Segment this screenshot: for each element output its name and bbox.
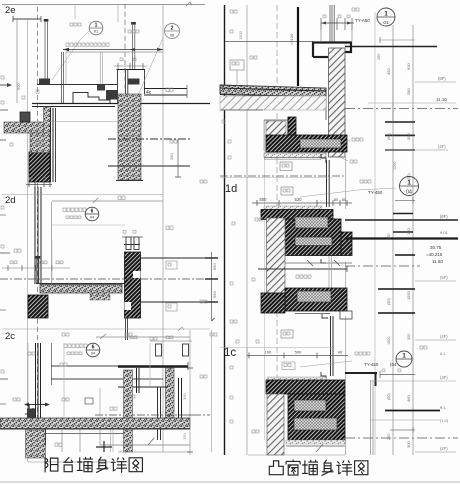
interior line 2c top (52, 198, 163, 203)
anno bubble top-left (52, 21, 103, 80)
stipple strip bottom right (166, 368, 175, 419)
svg-text:(3F): (3F) (440, 375, 448, 380)
door sill blocks 2e (97, 85, 118, 100)
elev dashdot 264 (345, 265, 420, 267)
door leaf verticals 2e (62, 52, 64, 103)
window verticals bottom (158, 387, 161, 440)
window centerline 2c (0, 278, 212, 280)
win1 head inner line (287, 120, 289, 152)
svg-text:(2F): (2F) (440, 446, 448, 451)
win2 head frame (321, 259, 326, 263)
door frame verticals bottom (28, 343, 52, 418)
sp3 corner box (340, 311, 352, 319)
svg-text:2e: 2e (5, 5, 16, 16)
svg-text:350: 350 (407, 334, 411, 340)
interior shelf lines bottom (51, 366, 163, 379)
pipe double lines (330, 5, 334, 42)
svg-text:200: 200 (387, 434, 391, 440)
win1 dark head strip (288, 117, 296, 152)
column top ticks (114, 58, 147, 69)
door verticals continuation (35, 187, 52, 284)
svg-text:40: 40 (338, 351, 342, 355)
elev tick 255 (395, 254, 415, 256)
svg-text:600: 600 (406, 63, 411, 70)
elev tick 122 (385, 103, 415, 122)
right dim vertical b (392, 25, 394, 455)
right roof edge lines (220, 88, 326, 120)
win3 dim line (247, 348, 348, 360)
right label 1c (220, 347, 332, 359)
stipple slab band 2c (40, 285, 122, 294)
svg-text:04: 04 (91, 352, 95, 356)
win3 sill frame (321, 372, 326, 380)
rot dims right bot (387, 393, 411, 448)
caption 阳台墙身详图 (45, 457, 58, 472)
svg-text:>2100: >2100 (289, 33, 294, 45)
stipple slab bottom (0, 418, 190, 429)
window sill line (108, 140, 190, 166)
right small smudges left edge (228, 10, 262, 433)
caption 凸窗墙身详图 (269, 461, 283, 475)
svg-text:500: 500 (260, 197, 268, 202)
elev dark 238 (345, 230, 458, 239)
waterproof smudge (338, 138, 363, 163)
balcony floor line (37, 84, 117, 86)
mullion pair right (179, 378, 182, 420)
win1 frame step (321, 154, 326, 163)
dark beam block 2d (29, 152, 50, 182)
small dark block (20, 112, 30, 122)
roof thick line (345, 46, 437, 48)
svg-text:80: 80 (334, 198, 338, 202)
elev line 340 (415, 334, 456, 340)
stipple under band (30, 133, 50, 153)
sp4 insul strip2 (294, 418, 337, 430)
anno text row (66, 43, 109, 46)
threshold steps (73, 93, 110, 104)
left edge marks (0, 76, 12, 404)
elev dashdot 437 (345, 437, 458, 439)
win3 glazing (331, 316, 334, 376)
elev line 430 (390, 427, 415, 433)
small marks bottom (85, 395, 135, 404)
win1 sill stipple (264, 153, 326, 158)
left label 2d (2, 195, 163, 207)
elev line 280 (415, 275, 456, 281)
sp2 insul strip1 (295, 217, 328, 228)
svg-text:150: 150 (406, 228, 411, 235)
svg-text:1c: 1c (224, 347, 236, 359)
left upper dim boxes (22, 90, 39, 99)
dim ticks row mid (2, 261, 70, 271)
svg-text:4c: 4c (146, 90, 152, 96)
svg-text:TY-A50: TY-A50 (355, 18, 370, 23)
left wall line B (27, 19, 29, 462)
anno bubble 1d right (300, 177, 419, 198)
elev line 82 (415, 76, 456, 82)
left 42 smudge (14, 249, 21, 252)
right interior wall line (224, 5, 226, 455)
svg-text:100: 100 (387, 234, 391, 240)
below slab room line (46, 428, 131, 445)
bottom dim arrow line (13, 398, 69, 407)
svg-text:(50): (50) (387, 393, 391, 400)
svg-text:(50): (50) (387, 133, 391, 140)
double wall lines bottom right (371, 380, 374, 455)
interior ceiling line (66, 51, 163, 53)
elev dark 410 (385, 405, 446, 411)
svg-text:8.1: 8.1 (440, 351, 446, 356)
svg-text:1500: 1500 (238, 30, 243, 40)
svg-text:450: 450 (386, 68, 391, 75)
win3 anno box (281, 330, 293, 338)
svg-text:11.60: 11.60 (432, 259, 443, 264)
elev line 380 (370, 375, 456, 381)
roof interior line (220, 109, 263, 111)
stipple wall strip 2e (44, 107, 51, 160)
4c double lines (144, 85, 187, 98)
railing post 2c (35, 256, 40, 284)
right wall line 2 (246, 5, 248, 455)
sp2 dark mid (285, 219, 341, 256)
elev double ticks upper (385, 40, 415, 136)
svg-text:=40.215: =40.215 (426, 252, 443, 257)
sp4 bottom stipple (286, 440, 345, 444)
railing post right (131, 22, 136, 69)
dim col bottom (182, 330, 212, 455)
right dim vertical a (374, 12, 376, 455)
block bottom ticks (26, 178, 52, 188)
window centerline bottom (95, 414, 210, 416)
stipple column base (116, 180, 143, 182)
elev line 200 (395, 197, 415, 204)
roof line light (225, 41, 313, 43)
sp4 dark block (288, 394, 345, 440)
sp2 dark bump right (341, 232, 352, 256)
sp4 dark top band (266, 380, 345, 394)
svg-text:150: 150 (182, 433, 187, 440)
svg-text:(1.0): (1.0) (440, 418, 449, 423)
window line 2c a (141, 257, 213, 259)
svg-text:(04: (04 (390, 362, 397, 367)
win2 dim line (285, 260, 352, 266)
anno bubble 1c right (300, 351, 412, 367)
sp3 frame (322, 314, 328, 318)
svg-text:250: 250 (377, 54, 381, 60)
main wall hatch roof (329, 48, 346, 157)
elev line 452 (415, 446, 456, 452)
svg-text:350: 350 (406, 133, 411, 140)
svg-text:280: 280 (169, 153, 174, 160)
glazing pair 2e (126, 70, 128, 108)
svg-text:11.10: 11.10 (436, 97, 447, 102)
interior dim box roof (230, 60, 244, 86)
bottom dim posts (130, 336, 192, 356)
hatch column cap 2c (124, 245, 140, 319)
svg-text:60: 60 (342, 198, 346, 202)
left wall line A (16, 19, 18, 103)
rot dims right top (386, 63, 411, 140)
dim col 2c (166, 252, 218, 321)
sp3 bottom line (295, 313, 330, 315)
svg-text:1: 1 (95, 23, 98, 29)
left room boundary line (162, 5, 164, 452)
sill block right (128, 79, 140, 85)
svg-text:1d: 1d (225, 183, 237, 195)
balcony floor line 2c (36, 283, 125, 285)
parapet coping (313, 43, 351, 58)
svg-text:TY-450: TY-450 (368, 190, 383, 195)
svg-text:04: 04 (406, 189, 412, 195)
win1 dim line (252, 197, 352, 206)
below slab lines (28, 429, 190, 462)
stipple hang 2c (90, 293, 110, 300)
left mid extra lines (52, 225, 125, 284)
elev texts top (352, 8, 395, 26)
svg-text:300: 300 (182, 393, 187, 400)
elev tick 288 (378, 288, 415, 290)
win3 460 box (282, 362, 295, 370)
stipple column upper (118, 94, 141, 180)
svg-text:280: 280 (406, 88, 411, 95)
win1 insul strip (300, 139, 341, 148)
dark beam block 2c (28, 295, 48, 318)
right more rot dims (377, 54, 411, 440)
dim smudges 2d-left (10, 141, 43, 146)
interior line bottom top (96, 334, 190, 339)
svg-text:01: 01 (383, 20, 389, 26)
elev smudge 350 (420, 346, 446, 356)
svg-text:300: 300 (406, 441, 411, 448)
svg-text:550: 550 (212, 263, 217, 270)
left mid horizontal y120 (50, 121, 118, 123)
left-of-1d smudges (222, 92, 243, 123)
left grid line top (2, 4, 205, 6)
slab top double line (32, 104, 210, 107)
win1 anno box a (280, 162, 292, 171)
left top tick line (13, 16, 41, 22)
svg-text:1200: 1200 (393, 162, 397, 170)
anno bubble 2c2 (64, 343, 100, 357)
elev thick 373 (345, 373, 377, 386)
svg-text:100: 100 (265, 350, 272, 355)
svg-text:2: 2 (171, 26, 174, 32)
svg-text:01: 01 (94, 30, 98, 34)
elev dark 220 (345, 214, 458, 220)
svg-text:(5F): (5F) (440, 275, 448, 280)
top right L-shape (118, 362, 188, 370)
window head bottom (118, 386, 168, 388)
below slab light pair (111, 429, 114, 452)
win1 anno box b (281, 187, 293, 195)
elev dashdot 108 (345, 108, 458, 110)
sp2 dark top band (261, 210, 333, 220)
below slab stipple column (26, 428, 46, 458)
elev tick 312 (378, 312, 415, 314)
left dim boxes right col (166, 88, 207, 378)
svg-text:6: 6 (91, 209, 94, 215)
roof slab stipple (220, 85, 326, 97)
win1 wall hatch above (266, 121, 286, 136)
right dim vertical c (412, 25, 414, 455)
svg-text:(4F): (4F) (438, 144, 446, 149)
right wall edge verticals (345, 157, 347, 455)
left top box verticals (75, 4, 118, 22)
svg-text:1: 1 (407, 180, 411, 187)
vent pipe thick (297, 7, 299, 86)
sp3 dark left (261, 293, 285, 313)
win1 sill double line (264, 158, 326, 160)
stipple column bottom (124, 370, 133, 452)
sp4 sill stipple (267, 377, 326, 381)
elev tick 213 (393, 213, 413, 215)
slab bottom edge (0, 428, 190, 430)
anno smudge w10 (118, 196, 125, 200)
dim vertical right 2d (169, 139, 181, 177)
sp3 dark band (285, 288, 347, 311)
svg-text:520: 520 (295, 197, 303, 202)
svg-text:08: 08 (170, 33, 174, 37)
right interior face line (264, 120, 266, 440)
sp4 wall column hatch (267, 394, 284, 455)
rot dims right mid (387, 228, 411, 305)
left label 2c (2, 327, 210, 342)
elev 11.10 (368, 97, 456, 103)
sill block left (39, 79, 50, 85)
svg-text:550: 550 (212, 291, 217, 298)
left bottom extra verticals (64, 343, 150, 418)
svg-text:9.1: 9.1 (440, 405, 446, 410)
svg-text:1550: 1550 (406, 290, 411, 300)
sp2 sill stipple (264, 206, 322, 210)
door centerline dashed (124, 4, 126, 88)
left centerline dashed (37, 7, 39, 458)
elev line 150 (385, 144, 448, 150)
svg-text:04: 04 (90, 216, 94, 220)
win2 smudges (296, 275, 311, 278)
win1 glazing (327, 160, 330, 207)
mullion pair mid (137, 368, 140, 393)
right centerline (276, 5, 278, 455)
below slab dark T (55, 441, 112, 452)
elev texts 30.75 (426, 245, 443, 264)
svg-text:(4F): (4F) (440, 334, 448, 339)
svg-text:500: 500 (295, 350, 302, 355)
bottom border line (0, 481, 460, 483)
sp3 insul strip (297, 291, 331, 302)
svg-text:(6F): (6F) (438, 76, 446, 81)
hatch column 2c (125, 252, 141, 318)
stipple slab band 2e (4, 122, 45, 133)
anno bubble 2d (63, 207, 99, 221)
svg-text:2c: 2c (5, 331, 15, 342)
anno smudges bottom (28, 333, 217, 410)
win2 transom line (258, 266, 347, 272)
svg-text:TY-450: TY-450 (364, 362, 379, 367)
threshold dark marks bottom2 (25, 405, 36, 418)
anno bubble 2 top (128, 24, 180, 101)
glazing verticals below 2c (126, 318, 128, 340)
sp2 insul strip2 (295, 237, 332, 246)
svg-text:30.75: 30.75 (430, 245, 442, 250)
door leaf light pair (101, 52, 103, 84)
elev line 420 (370, 418, 449, 423)
elev tick 135 (385, 134, 415, 136)
svg-text:9.01: 9.01 (440, 230, 449, 235)
svg-text:460: 460 (406, 395, 411, 402)
railing post left (44, 19, 49, 84)
window line 2c b (141, 301, 213, 303)
svg-text:(6F): (6F) (440, 214, 448, 219)
svg-text:6: 6 (92, 345, 95, 351)
elev line 374r (380, 369, 415, 378)
right label 1d (220, 178, 332, 196)
win2 glazing (329, 256, 332, 288)
window head frame 2e (117, 70, 146, 104)
interior wall line (65, 52, 67, 84)
svg-text:(50): (50) (387, 298, 391, 305)
sp2 wall column hatch (267, 218, 286, 293)
sp4 insul strip1 (294, 400, 326, 411)
door frame verticals 2d (51, 108, 56, 182)
roof screed hatch (220, 96, 326, 110)
roof top ticks (321, 15, 354, 41)
win1 centerline (220, 175, 345, 177)
elev line 40 (380, 37, 415, 43)
svg-text:900: 900 (16, 83, 21, 90)
sp4 bottom lines (248, 444, 345, 455)
win1 jamb white box (264, 117, 288, 151)
svg-text:1500: 1500 (387, 337, 391, 345)
win1 dark band (266, 135, 347, 152)
hatch column top posts (122, 231, 143, 250)
long dim line 2e (63, 48, 163, 52)
svg-text:2d: 2d (5, 195, 16, 206)
elev tick 232 (393, 231, 413, 233)
window head line dashdot (108, 138, 190, 140)
